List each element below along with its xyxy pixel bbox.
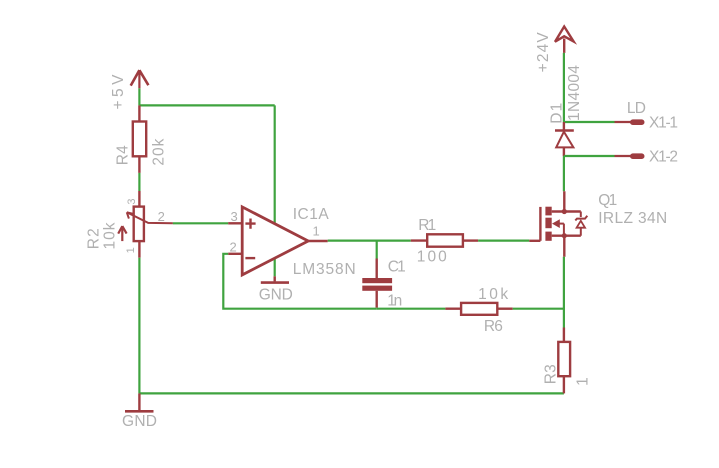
- svg-text:1n: 1n: [387, 293, 402, 310]
- svg-text:GND: GND: [122, 413, 157, 430]
- resistor R1: [411, 234, 478, 246]
- wire feedback from pin2: [223, 254, 376, 309]
- svg-text:R6: R6: [484, 318, 503, 335]
- svg-text:+5V: +5V: [110, 74, 127, 110]
- wire node to X1-1: [564, 121, 615, 123]
- wire X1-2 node to Q1 drain: [563, 156, 565, 191]
- svg-text:2: 2: [158, 209, 165, 224]
- svg-text:10k: 10k: [478, 286, 508, 303]
- svg-text:1: 1: [574, 377, 591, 386]
- svg-text:IC1A: IC1A: [293, 206, 330, 223]
- svg-text:+24V: +24V: [535, 32, 552, 73]
- wire R1 to Q1 gate: [478, 240, 529, 242]
- svg-text:R3: R3: [543, 364, 560, 384]
- resistor R3: [558, 328, 570, 394]
- wire C1 tap: [376, 241, 378, 259]
- svg-text:R2: R2: [86, 228, 103, 249]
- op-amp IC1A: [228, 207, 328, 275]
- supply +24V symbol: [555, 27, 574, 53]
- svg-text:GND: GND: [259, 286, 293, 303]
- pin X1-2: [615, 153, 645, 159]
- wire feedback rail to R6: [377, 308, 446, 310]
- svg-text:LM358N: LM358N: [293, 261, 356, 278]
- svg-text:2: 2: [230, 240, 237, 255]
- svg-text:10k: 10k: [102, 222, 119, 249]
- svg-text:R4: R4: [114, 145, 131, 165]
- wire R6 to source node: [513, 308, 564, 310]
- wire op-amp V+ drop: [274, 105, 276, 222]
- svg-text:D1: D1: [549, 103, 566, 124]
- svg-text:LD: LD: [627, 100, 646, 117]
- resistor R4: [133, 105, 146, 172]
- svg-text:1N4004: 1N4004: [566, 65, 583, 121]
- svg-text:3: 3: [126, 198, 138, 204]
- svg-text:20k: 20k: [150, 138, 167, 165]
- wire ground rail bottom: [139, 392, 564, 394]
- wire Q1 source down: [563, 257, 565, 328]
- svg-text:IRLZ 34N: IRLZ 34N: [598, 210, 667, 227]
- wire R4 to R2: [138, 173, 140, 191]
- transistor Q1: [529, 191, 587, 256]
- wire op-amp output: [328, 240, 411, 242]
- svg-text:R1: R1: [418, 217, 436, 234]
- svg-text:X1-1: X1-1: [649, 115, 678, 132]
- svg-text:1: 1: [313, 223, 320, 238]
- capacitor C1: [362, 259, 392, 308]
- svg-text:3: 3: [231, 209, 238, 224]
- supply +5V symbol: [131, 70, 149, 88]
- pin X1-1: [615, 119, 645, 125]
- wire R2 wiper to op-amp pin3: [173, 222, 228, 224]
- wire +5V rail horizontal: [139, 104, 274, 106]
- svg-text:C1: C1: [388, 258, 406, 275]
- svg-text:Q1: Q1: [598, 192, 617, 209]
- svg-text:100: 100: [417, 248, 447, 265]
- resistor R6: [445, 303, 512, 315]
- wire +24V to D1: [563, 53, 565, 122]
- wire +5V to rail junction: [138, 88, 140, 105]
- ground GND left: [125, 393, 154, 411]
- wire node to X1-2: [564, 155, 615, 157]
- svg-text:X1-2: X1-2: [649, 149, 678, 166]
- ground GND op-amp: [261, 276, 289, 282]
- wire op-amp V- to GND: [274, 258, 276, 276]
- diode D1: [555, 122, 574, 156]
- potentiometer R2: [118, 191, 173, 258]
- svg-text:1: 1: [125, 247, 137, 253]
- wire R2 bottom to ground rail: [138, 258, 140, 394]
